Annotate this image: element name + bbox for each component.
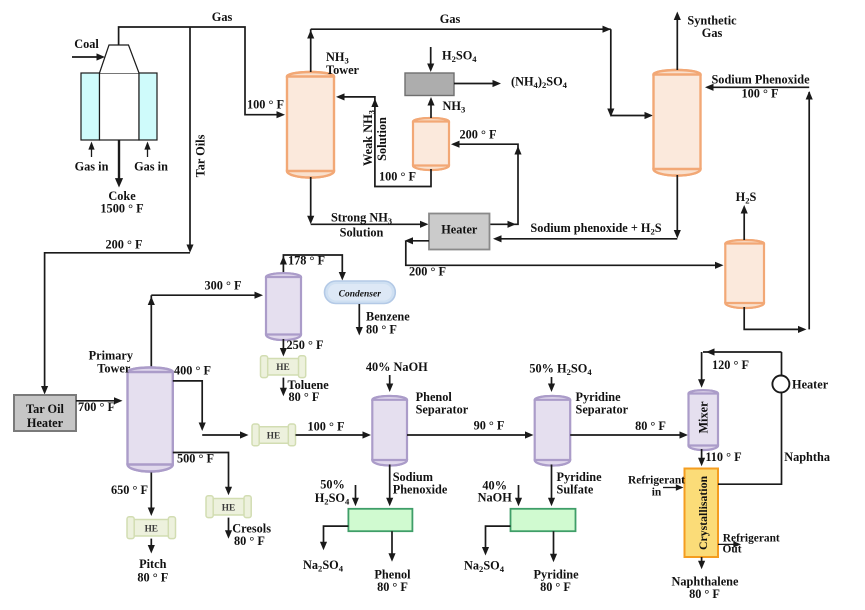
heat exchanger HE (cresols) [206,496,251,518]
gas in arrow right [147,146,149,157]
svg-text:Mixer: Mixer [697,401,711,434]
vessel: NH3 tower [287,72,334,178]
svg-text:1500 ° F: 1500 ° F [100,202,143,216]
wire: heater vapor 200F to weak NH3 drum [453,144,518,224]
vessel: carbonation tower (synthetic gas) [654,70,701,176]
svg-text:HE: HE [267,432,280,442]
svg-text:Condenser: Condenser [339,290,382,300]
svg-text:Refrigerant: Refrigerant [628,475,685,487]
wire: Na2SO4 out left [324,526,349,546]
coke out arrow [118,140,120,181]
wire: tar oils drop line [189,27,191,248]
svg-text:Gas: Gas [440,12,461,26]
condenser [325,281,396,304]
svg-text:Na2SO4: Na2SO4 [464,559,505,575]
wire: strong NH3 solution to heater [310,177,312,220]
svg-text:700 ° F: 700 ° F [78,400,115,414]
svg-text:Sulfate: Sulfate [557,483,594,497]
svg-text:Coal: Coal [74,37,99,51]
svg-text:100 ° F: 100 ° F [379,170,416,184]
svg-text:HE: HE [222,504,235,514]
svg-text:80 ° F: 80 ° F [689,587,720,601]
wire: synthetic gas out [676,16,678,70]
svg-text:NH3: NH3 [443,99,466,115]
svg-text:Tower: Tower [326,63,360,77]
svg-text:Pitch: Pitch [139,557,166,571]
svg-text:Primary: Primary [89,349,134,363]
svg-text:Na2SO4: Na2SO4 [303,558,344,574]
svg-text:120 ° F: 120 ° F [712,358,749,372]
svg-text:80 ° F: 80 ° F [289,390,320,404]
svg-text:650 ° F: 650 ° F [111,483,148,497]
svg-text:90 ° F: 90 ° F [474,419,505,433]
svg-text:H2SO4: H2SO4 [442,49,477,65]
wire: 650F bottoms to HE [150,473,152,513]
svg-text:Gas: Gas [212,10,233,24]
svg-text:Sodium Phenoxide: Sodium Phenoxide [711,73,810,87]
svg-text:Sodium phenoxide + H2S: Sodium phenoxide + H2S [530,221,661,237]
svg-text:200 ° F: 200 ° F [105,238,142,252]
wire: 40% NaOH feed to pyridine reactor [518,485,520,503]
svg-text:Separator: Separator [576,403,629,417]
box: ammonium sulfate saturator [405,73,454,96]
svg-text:80 ° F: 80 ° F [234,534,265,548]
svg-text:200 ° F: 200 ° F [409,265,446,279]
vessel: phenol separator [372,396,407,465]
svg-text:Heater: Heater [792,378,829,392]
wire: heater bottoms 200F to H2S still [409,240,429,242]
svg-text:Separator: Separator [416,403,469,417]
wire: refrigerant in [663,487,679,489]
svg-text:Solution: Solution [375,117,389,161]
wire: 50% H2SO4 feed to pyridine separator [551,377,553,388]
svg-text:H2SO4: H2SO4 [315,491,350,507]
wire: 700F feed to primary tower [76,400,118,402]
wire: pyridine product out [553,531,555,558]
svg-text:Tower: Tower [97,362,131,376]
svg-text:in: in [652,487,662,499]
wire: (NH4)2SO4 product arrow [454,83,496,85]
svg-text:H2S: H2S [736,190,757,206]
gas in arrow left [91,146,93,157]
coke oven right flue (cyan) [139,73,157,140]
svg-text:Gas: Gas [702,26,723,40]
wire: 300F light oil feed [151,294,259,296]
svg-text:80 ° F: 80 ° F [540,580,571,594]
svg-text:178 ° F: 178 ° F [288,254,325,268]
svg-text:50%: 50% [320,478,345,492]
wire: cresols out [228,518,230,535]
box: tar oil heater [14,395,76,431]
wire: toluene out [282,378,284,393]
svg-text:100 ° F: 100 ° F [307,420,344,434]
svg-text:Out: Out [723,543,742,555]
wire: 120F recycle into mixer [703,351,782,353]
coke oven left flue (cyan) [81,73,100,140]
wire: H2SO4 feed arrow [430,47,432,69]
wire: 90F to pyridine separator [407,434,530,436]
wire: 178F overhead to condenser [283,255,342,277]
svg-text:300 ° F: 300 ° F [204,279,241,293]
wire: naphtha loop to heater circle [718,352,782,484]
heater circle [772,376,789,393]
wire: 200F tar oils to tar oil heater [45,253,190,390]
wire: NH3 gas up to saturator [430,101,432,118]
svg-text:Solution: Solution [340,226,384,240]
wire: 80F to mixer [570,434,684,436]
svg-text:50% H2SO4: 50% H2SO4 [529,362,592,378]
coal feed arrow [72,56,100,58]
wire: pitch out [150,539,152,550]
heat exchanger HE (middle oil) [252,424,296,446]
svg-text:100 ° F: 100 ° F [741,87,778,101]
svg-text:80 ° F: 80 ° F [137,570,168,584]
vessel: H2S still [725,240,764,308]
svg-text:80 ° F: 80 ° F [377,580,408,594]
wire: 110F to crystallisation [701,449,703,463]
wire: 100F to phenol separator [296,434,368,436]
box: phenol springer (green) [348,509,412,531]
svg-text:400 ° F: 400 ° F [174,364,211,378]
vessel: mixer [689,390,719,450]
svg-text:HE: HE [145,525,158,535]
svg-text:200 ° F: 200 ° F [459,128,496,142]
heat exchanger HE (pitch) [127,517,176,539]
svg-text:Heater: Heater [441,223,478,237]
wire: 50% H2SO4 feed [355,485,357,503]
wire: naphtha recycle riser [808,92,810,329]
svg-text:Crystallisation: Crystallisation [696,476,710,550]
box: crystallisation [685,469,719,558]
wire: naphthalene out [701,557,703,566]
svg-text:500 ° F: 500 ° F [177,452,214,466]
svg-text:250 ° F: 250 ° F [287,338,324,352]
svg-text:Tar Oil: Tar Oil [26,402,65,416]
wire: weak NH3 solution return to tower [340,97,431,187]
svg-text:Phenoxide: Phenoxide [393,483,448,497]
svg-text:(NH4)2SO4: (NH4)2SO4 [511,75,568,91]
svg-text:Strong NH3: Strong NH3 [331,211,392,227]
svg-text:NaOH: NaOH [478,491,513,505]
svg-text:100 ° F: 100 ° F [247,98,284,112]
wire: refrigerant out [718,543,737,545]
coke oven hopper (trapezoid) [100,45,140,73]
svg-text:80 ° F: 80 ° F [635,419,666,433]
box: pyridine springer (green) [511,509,576,531]
heat exchanger HE (toluene) [261,356,306,378]
vessel: benzene column [266,273,301,340]
wire: phenol product out [391,531,393,557]
svg-text:Gas in: Gas in [75,160,109,174]
wire: sodium phenoxide + H2S to heater [676,175,678,234]
vessel: weak NH3 drum [413,118,449,170]
wire: pyridine sulfate to reactor [551,465,553,503]
wire: gas line coke oven to NH3 tower [119,27,280,115]
wire: gas line NH3 tower to synthetic gas tower [310,29,312,72]
wire: 250F bottoms to HE [282,339,284,353]
coke oven center chamber [100,73,140,140]
wire: sodium phenoxide 100F into tower [707,86,809,88]
wire: 400F side draw to HE [173,381,202,427]
wire: benzene out [358,304,360,331]
wire: Na2SO4 out left (pyridine) [486,526,511,551]
svg-text:Heater: Heater [27,416,64,430]
svg-text:80 ° F: 80 ° F [366,323,397,337]
svg-text:Naphtha: Naphtha [784,450,830,464]
vessel: primary tower [128,368,173,472]
svg-text:110 ° F: 110 ° F [705,450,741,464]
wire: 500F side draw to HE [173,453,229,492]
vessel: pyridine separator [535,396,571,466]
svg-text:Benzene: Benzene [366,310,410,324]
wire: 40% NaOH feed [389,375,391,388]
svg-text:Gas in: Gas in [134,160,168,174]
svg-text:HE: HE [276,363,289,373]
wire: H2S still bottoms to riser [744,307,803,329]
wire: H2S vent [743,209,745,240]
box: heater [429,214,490,250]
svg-text:40% NaOH: 40% NaOH [366,360,428,374]
svg-text:Tar Oils: Tar Oils [194,134,208,177]
wire: sodium phenoxide to reactor [389,465,391,503]
